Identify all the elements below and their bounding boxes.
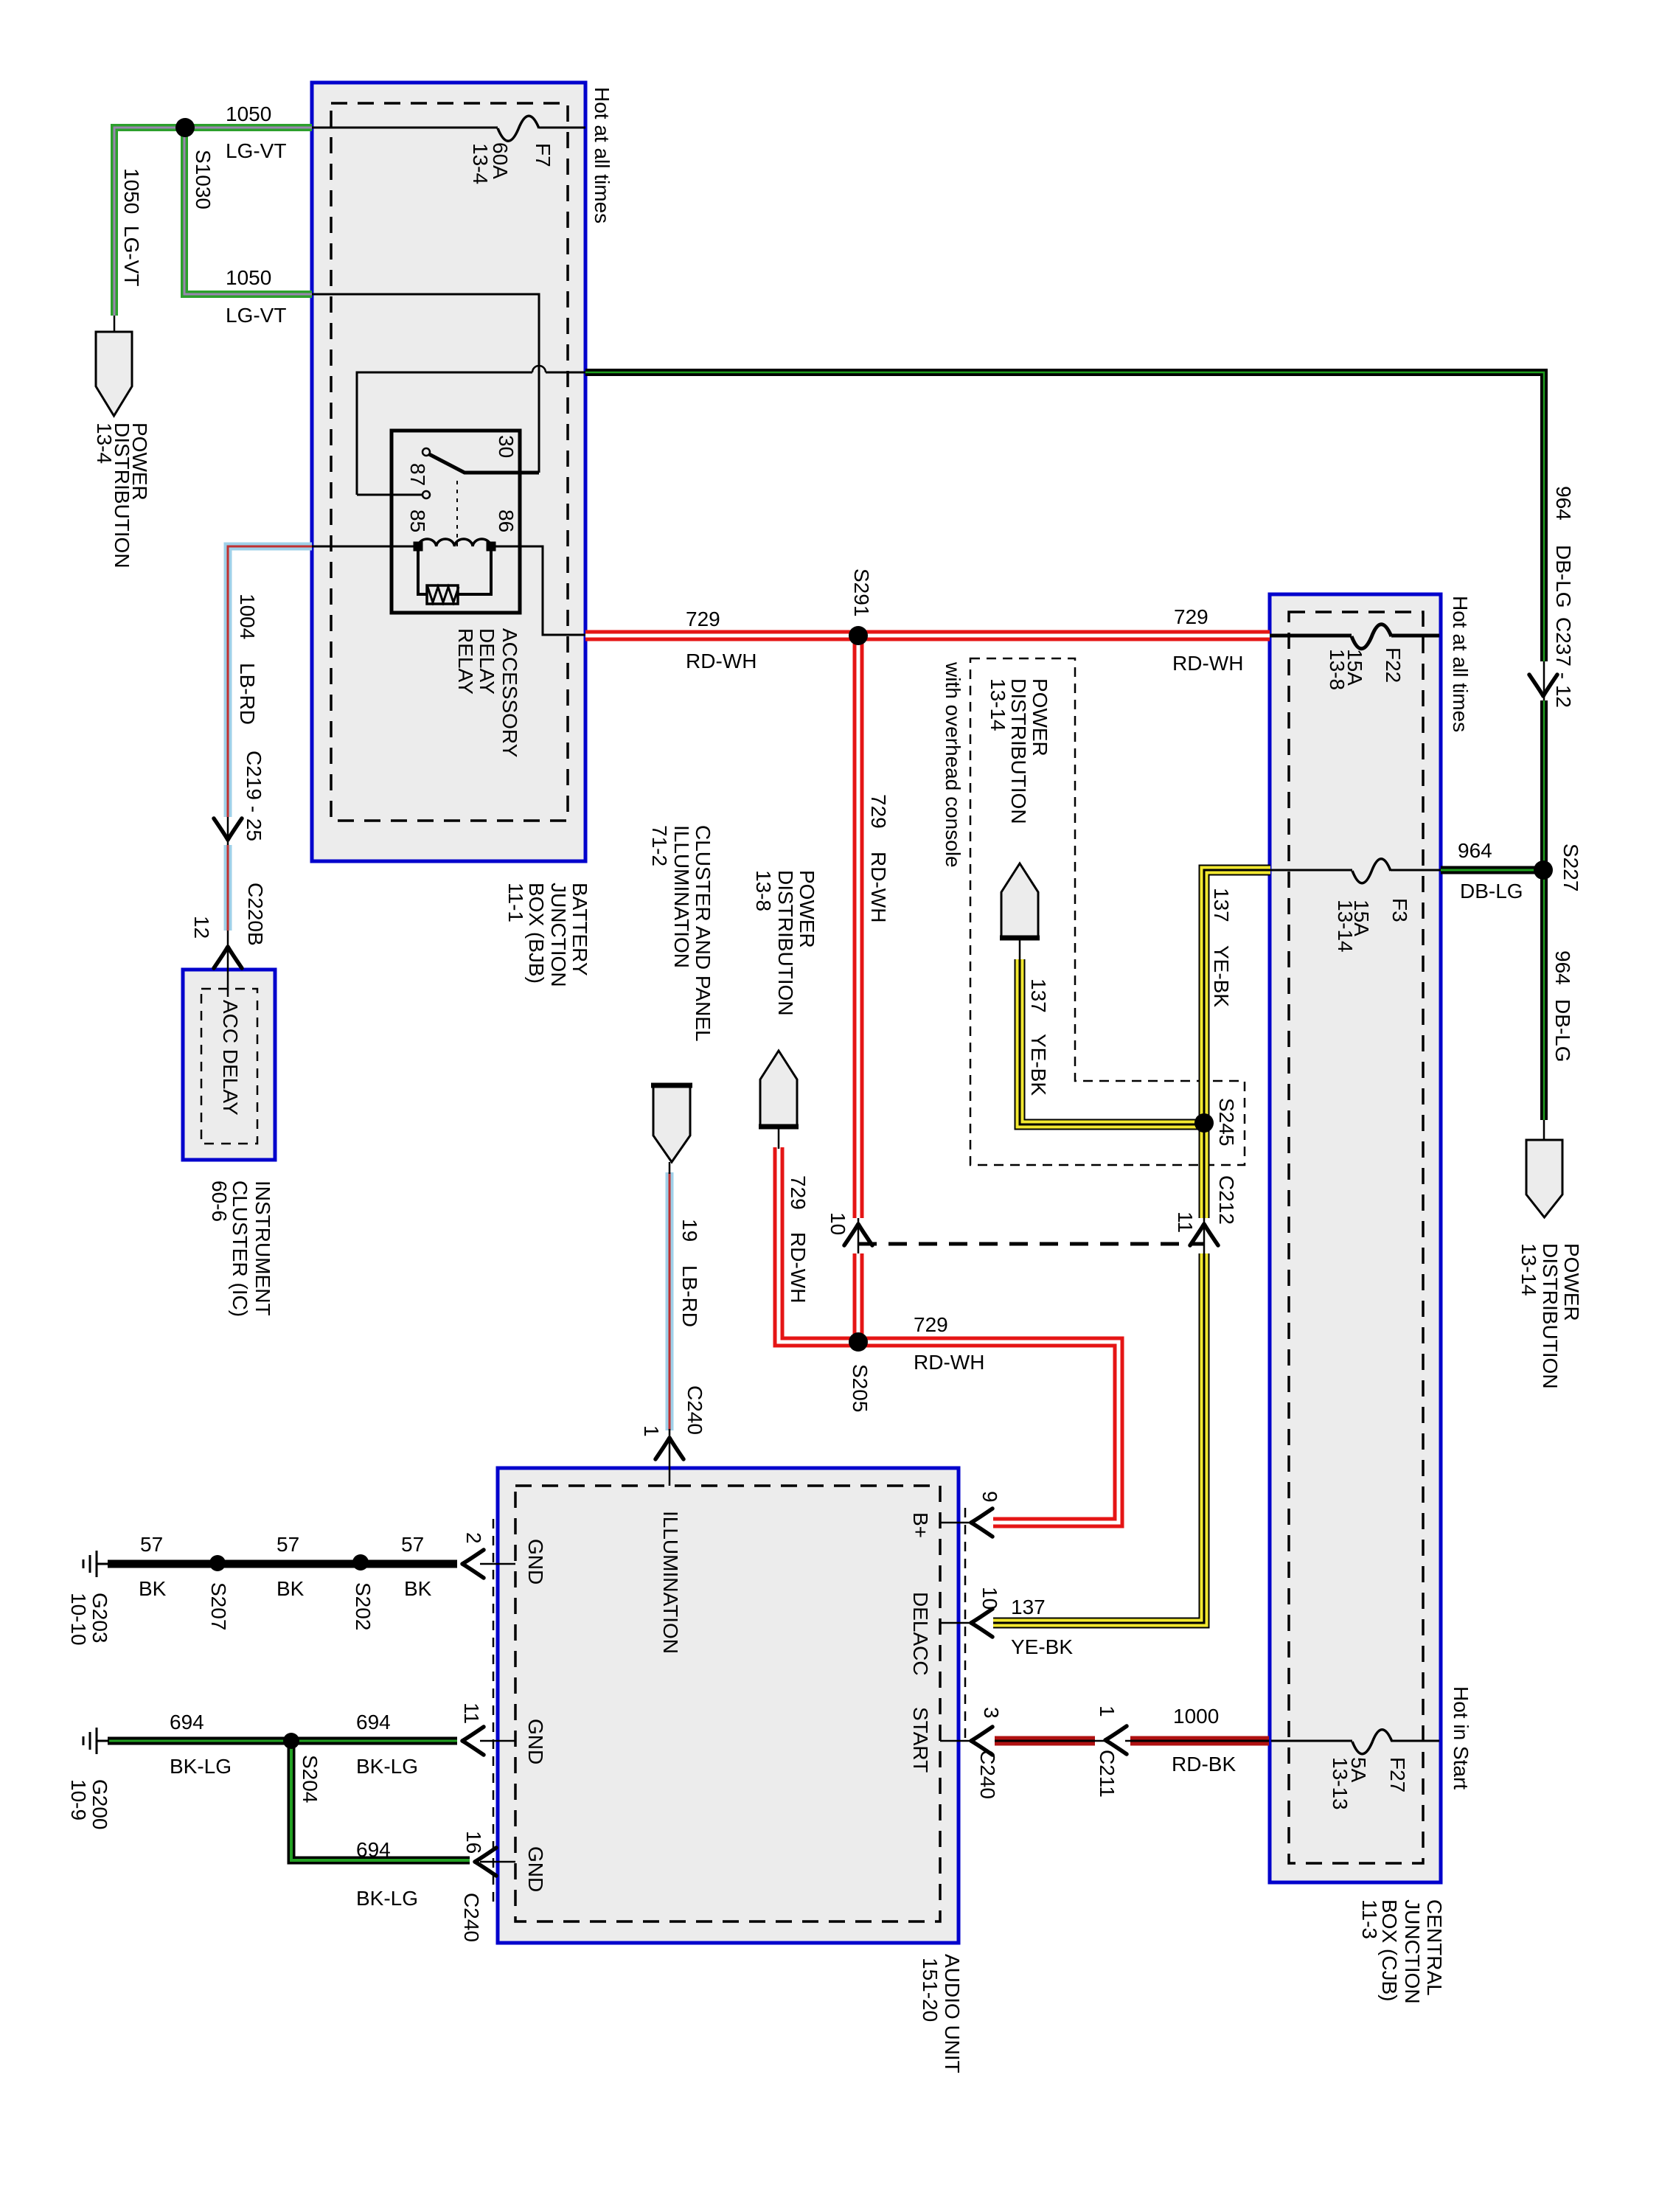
svg-text:13-13: 13-13 bbox=[1329, 1757, 1352, 1810]
svg-text:JUNCTION: JUNCTION bbox=[547, 883, 570, 987]
svg-text:19: 19 bbox=[678, 1219, 701, 1242]
relay coil bbox=[418, 539, 491, 546]
svg-text:1050: 1050 bbox=[226, 102, 271, 125]
svg-text:POWER: POWER bbox=[796, 870, 818, 948]
stub DB-LG C237 connector bbox=[1543, 661, 1545, 700]
svg-text:POWER: POWER bbox=[1560, 1243, 1583, 1321]
stub pennant to wire 19 bbox=[669, 1162, 671, 1174]
splice S205 bbox=[849, 1332, 868, 1352]
svg-text:BOX (BJB): BOX (BJB) bbox=[525, 883, 548, 984]
svg-text:86: 86 bbox=[495, 509, 518, 532]
pennant POWER DISTRIBUTION 13-4 bbox=[96, 332, 132, 416]
ACC DELAY inner dashed boundary bbox=[201, 989, 257, 1144]
svg-text:DISTRIBUTION: DISTRIBUTION bbox=[774, 870, 797, 1016]
svg-text:YE-BK: YE-BK bbox=[1210, 945, 1233, 1007]
svg-text:B+: B+ bbox=[909, 1512, 932, 1538]
svg-text:964: 964 bbox=[1458, 839, 1492, 862]
svg-text:DELACC: DELACC bbox=[909, 1592, 932, 1676]
connector arrow pin 2 bbox=[462, 1550, 484, 1578]
svg-text:ILLUMINATION: ILLUMINATION bbox=[659, 1511, 682, 1654]
pennant CLUSTER AND PANEL ILLUMINATION 71-2 bbox=[653, 1086, 690, 1162]
relay actuating dashed link bbox=[456, 481, 458, 547]
svg-text:137: 137 bbox=[1210, 888, 1233, 922]
svg-text:S207: S207 bbox=[207, 1582, 230, 1630]
stub C212 pin 10 bbox=[858, 1218, 860, 1253]
svg-text:Hot in Start: Hot in Start bbox=[1450, 1686, 1472, 1790]
connector arrow C211 pin 1 bbox=[1105, 1726, 1127, 1754]
dashed option region: with overhead console bbox=[970, 658, 1245, 1165]
svg-text:F22: F22 bbox=[1382, 647, 1405, 683]
svg-text:1: 1 bbox=[640, 1425, 663, 1437]
svg-text:694: 694 bbox=[170, 1711, 204, 1733]
wire 729 RD-WH from BJB to S291 to CJB bbox=[585, 630, 1270, 641]
svg-text:F7: F7 bbox=[532, 143, 554, 167]
splice S227 bbox=[1534, 860, 1553, 880]
svg-text:LG-VT: LG-VT bbox=[226, 304, 286, 327]
splice S202 bbox=[352, 1554, 369, 1571]
splice S1030 bbox=[175, 118, 195, 137]
wire through fuse F7 bbox=[312, 127, 585, 129]
svg-text:GND: GND bbox=[524, 1539, 547, 1585]
wire 57 BK from G203 to audio unit pin 2 bbox=[108, 1560, 457, 1568]
svg-text:S1030: S1030 bbox=[192, 150, 215, 209]
svg-text:729: 729 bbox=[686, 608, 720, 630]
svg-text:C240: C240 bbox=[460, 1893, 483, 1942]
svg-text:G200: G200 bbox=[88, 1779, 111, 1830]
fuse F7 element bbox=[498, 116, 539, 141]
svg-text:729: 729 bbox=[867, 794, 890, 829]
wire 694 BK-LG from S204 to audio unit pin 16 bbox=[291, 1741, 470, 1860]
wire through CJB fuse F27 bbox=[1271, 1740, 1439, 1742]
svg-text:11: 11 bbox=[1174, 1211, 1197, 1233]
svg-text:10: 10 bbox=[827, 1212, 849, 1235]
fuse F3 element bbox=[1352, 859, 1391, 883]
svg-text:POWER: POWER bbox=[1029, 678, 1051, 757]
splice S204 bbox=[283, 1733, 299, 1749]
relay coil terminal 85 bbox=[414, 543, 422, 550]
stub C211 connector gaps bbox=[1095, 1740, 1130, 1742]
svg-text:S202: S202 bbox=[352, 1582, 375, 1630]
wire 137 YE-BK from S245 down to C212 pin 11 bbox=[1199, 1124, 1210, 1218]
wire 137 YE-BK from S245 up to CJB fuse F3 bbox=[1204, 870, 1270, 1124]
connector arrow pin 3 bbox=[971, 1727, 992, 1755]
ACC DELAY box outline bbox=[183, 970, 275, 1160]
svg-text:G203: G203 bbox=[88, 1593, 111, 1644]
svg-text:10-9: 10-9 bbox=[67, 1779, 90, 1820]
CJB inner dashed boundary bbox=[1289, 612, 1423, 1863]
wire from BJB 1050 entry to relay pin 30 bbox=[312, 294, 539, 473]
wire LB-RD entry to relay coil pin 85 bbox=[312, 546, 415, 548]
svg-text:11-3: 11-3 bbox=[1358, 1899, 1381, 1939]
svg-text:30: 30 bbox=[495, 435, 518, 458]
svg-text:DB-LG: DB-LG bbox=[1552, 545, 1575, 608]
battery junction box (BJB) outline bbox=[312, 83, 585, 861]
svg-text:DISTRIBUTION: DISTRIBUTION bbox=[1539, 1243, 1562, 1389]
svg-text:BK-LG: BK-LG bbox=[356, 1887, 418, 1910]
svg-text:ACC DELAY: ACC DELAY bbox=[219, 1000, 242, 1116]
stub pennant 137 to yellow wire bbox=[1019, 939, 1021, 961]
svg-text:Hot at all times: Hot at all times bbox=[1449, 596, 1472, 732]
svg-text:YE-BK: YE-BK bbox=[1027, 1034, 1050, 1096]
svg-text:1004: 1004 bbox=[236, 594, 259, 639]
relay coil terminal 86 bbox=[487, 543, 495, 550]
svg-text:729: 729 bbox=[1174, 605, 1208, 628]
svg-text:ILLUMINATION: ILLUMINATION bbox=[670, 825, 693, 968]
svg-text:ACCESSORY: ACCESSORY bbox=[498, 628, 521, 758]
svg-text:C212: C212 bbox=[1215, 1175, 1238, 1225]
svg-text:C219 - 25: C219 - 25 bbox=[243, 751, 265, 841]
svg-text:13-14: 13-14 bbox=[1334, 900, 1357, 953]
svg-text:C211: C211 bbox=[1096, 1750, 1119, 1798]
svg-text:87: 87 bbox=[406, 463, 429, 486]
pennant POWER DISTRIBUTION 13-14 right bbox=[1526, 1140, 1562, 1217]
svg-text:AUDIO UNIT: AUDIO UNIT bbox=[941, 1954, 964, 2073]
stub audio pin 3 bbox=[940, 1740, 970, 1742]
svg-text:13-14: 13-14 bbox=[987, 678, 1009, 731]
splice S245 bbox=[1194, 1113, 1214, 1133]
ground G203 bbox=[83, 1551, 109, 1577]
wire relay pin 86 to RD-WH output bbox=[491, 546, 585, 635]
audio unit box outline bbox=[498, 1468, 959, 1943]
wire 729 RD-WH from C212 pin 10 to S205 bbox=[853, 1253, 864, 1342]
stub audio pin 9 bbox=[940, 1522, 970, 1524]
svg-text:1050: 1050 bbox=[226, 266, 271, 289]
wire 729 RD-WH from S205 to audio unit pin 9 bbox=[858, 1342, 1119, 1523]
connector C240 dashed line (audio unit left side) bbox=[493, 1519, 495, 1902]
svg-text:964: 964 bbox=[1551, 950, 1574, 985]
splice S291 bbox=[849, 626, 868, 645]
svg-text:694: 694 bbox=[356, 1838, 391, 1861]
svg-text:BK-LG: BK-LG bbox=[356, 1755, 418, 1778]
stub audio pin 11 bbox=[480, 1740, 515, 1742]
pennant POWER DISTRIBUTION 13-8 bbox=[760, 1051, 797, 1127]
stub audio pin 2 bbox=[480, 1563, 515, 1565]
svg-text:S227: S227 bbox=[1559, 844, 1582, 891]
wire 1000 RD-BK from audio unit pin 3 to C211 bbox=[995, 1736, 1095, 1746]
wire 1000 RD-BK from C211 to CJB fuse F27 bbox=[1130, 1736, 1269, 1746]
svg-text:57: 57 bbox=[276, 1533, 299, 1556]
wire 1004 LB-RD from C219 to C220B bbox=[224, 845, 232, 931]
svg-text:S205: S205 bbox=[849, 1364, 872, 1412]
connector arrow pin 11 bbox=[462, 1727, 484, 1755]
svg-text:729: 729 bbox=[914, 1313, 948, 1336]
stub DB-LG wire to pennant 13-14 bbox=[1543, 1120, 1545, 1140]
svg-text:RELAY: RELAY bbox=[454, 628, 477, 695]
svg-text:with overhead console: with overhead console bbox=[942, 661, 964, 868]
svg-text:10: 10 bbox=[978, 1587, 1001, 1610]
svg-text:RD-BK: RD-BK bbox=[1172, 1753, 1236, 1775]
svg-text:1: 1 bbox=[1096, 1705, 1119, 1717]
svg-text:11: 11 bbox=[460, 1703, 483, 1724]
stub C212 pin 11 bbox=[1203, 1218, 1206, 1253]
relay switch arm bbox=[429, 454, 539, 473]
svg-text:2: 2 bbox=[462, 1532, 485, 1544]
svg-text:C237 - 12: C237 - 12 bbox=[1552, 617, 1575, 708]
fuse F27 element bbox=[1352, 1730, 1392, 1754]
svg-text:694: 694 bbox=[356, 1711, 391, 1733]
svg-text:60-6: 60-6 bbox=[208, 1180, 231, 1222]
wire 1004 LB-RD from relay coil to C219 bbox=[228, 546, 312, 817]
relay suppression resistor leads bbox=[418, 550, 491, 594]
connector arrow audio pin 1 bbox=[655, 1438, 684, 1459]
fuse F22 element bbox=[1352, 625, 1391, 649]
stub audio pin 16 bbox=[480, 1861, 515, 1863]
wire 964 DB-LG from BJB relay output to C237 bbox=[585, 372, 1544, 661]
svg-text:C220B: C220B bbox=[244, 883, 267, 946]
svg-text:13-8: 13-8 bbox=[1326, 649, 1349, 690]
wire 19 LB-RD from pennant to audio unit pin 1 bbox=[666, 1172, 674, 1430]
svg-text:11-1: 11-1 bbox=[504, 883, 527, 922]
connector arrow C219 pin 25 bbox=[214, 818, 242, 840]
svg-text:LG-VT: LG-VT bbox=[226, 139, 286, 162]
wire through CJB fuse F22 bbox=[1270, 634, 1439, 638]
central junction box (CJB) outline bbox=[1270, 594, 1441, 1882]
connector arrow C212 pin 10 bbox=[844, 1224, 872, 1245]
svg-text:S245: S245 bbox=[1215, 1098, 1238, 1146]
wire 1050 LG-VT second branch from S1030 into BJB bbox=[184, 124, 312, 294]
svg-text:S204: S204 bbox=[299, 1755, 321, 1803]
connector arrow C220B pin 12 bbox=[214, 947, 242, 968]
connector arrow C237 pin 12 bbox=[1529, 675, 1557, 696]
svg-text:F3: F3 bbox=[1388, 898, 1411, 922]
svg-text:RD-WH: RD-WH bbox=[1172, 652, 1243, 675]
svg-text:CLUSTER AND PANEL: CLUSTER AND PANEL bbox=[692, 825, 714, 1042]
wire 137 YE-BK from overhead console pennant to S245 bbox=[1020, 959, 1204, 1124]
svg-text:CENTRAL: CENTRAL bbox=[1423, 1899, 1446, 1996]
svg-text:10-10: 10-10 bbox=[67, 1593, 90, 1646]
svg-text:16: 16 bbox=[462, 1831, 485, 1854]
wire 964 DB-LG from CJB fuse F3 to S227 bbox=[1441, 866, 1543, 874]
wire 729 RD-WH from power distribution pennant to S205 bbox=[779, 1147, 858, 1342]
svg-text:85: 85 bbox=[406, 509, 429, 532]
connector C240 dashed line (audio unit right side) bbox=[964, 1508, 967, 1744]
connector C212 heavy dashed line bbox=[858, 1242, 1204, 1246]
wire 729 RD-WH vertical from S291 to C212 pin 10 bbox=[853, 636, 864, 1218]
svg-text:BK: BK bbox=[404, 1577, 432, 1600]
stub pennant 729 to red wire bbox=[778, 1127, 780, 1149]
svg-text:1000: 1000 bbox=[1173, 1705, 1219, 1728]
svg-text:57: 57 bbox=[140, 1533, 163, 1556]
relay contact 87 bbox=[422, 491, 430, 498]
svg-text:RD-WH: RD-WH bbox=[914, 1351, 984, 1374]
relay switch common contact bbox=[422, 448, 430, 456]
svg-text:C240: C240 bbox=[976, 1750, 999, 1799]
svg-text:3: 3 bbox=[980, 1707, 1003, 1719]
svg-text:137: 137 bbox=[1011, 1596, 1046, 1618]
svg-text:JUNCTION: JUNCTION bbox=[1401, 1899, 1424, 2004]
svg-text:LG-VT: LG-VT bbox=[120, 226, 143, 286]
svg-text:F27: F27 bbox=[1386, 1757, 1409, 1792]
relay resistor zigzag bbox=[428, 587, 459, 602]
svg-text:GND: GND bbox=[524, 1846, 547, 1892]
svg-text:151-20: 151-20 bbox=[919, 1958, 942, 2022]
wire 964 DB-LG from C237 to S227 and pennant bbox=[1540, 700, 1548, 1120]
stub audio pin 10 bbox=[940, 1622, 970, 1624]
svg-text:RD-WH: RD-WH bbox=[787, 1232, 810, 1303]
stub LB-RD C219 connector bbox=[227, 817, 229, 845]
relay suppression resistor body bbox=[427, 585, 458, 604]
svg-text:DB-LG: DB-LG bbox=[1551, 999, 1574, 1062]
svg-text:DELAY: DELAY bbox=[476, 628, 498, 695]
svg-text:729: 729 bbox=[787, 1175, 810, 1210]
svg-text:71-2: 71-2 bbox=[648, 825, 671, 866]
svg-text:964: 964 bbox=[1552, 486, 1575, 521]
svg-text:YE-BK: YE-BK bbox=[1011, 1635, 1073, 1658]
svg-text:GND: GND bbox=[524, 1719, 547, 1764]
wire 137 YE-BK from C212 pin 11 to audio unit pin 10 bbox=[993, 1253, 1204, 1623]
svg-text:LB-RD: LB-RD bbox=[236, 663, 259, 725]
svg-text:INSTRUMENT: INSTRUMENT bbox=[251, 1180, 274, 1316]
svg-text:RD-WH: RD-WH bbox=[867, 852, 890, 922]
pennant POWER DISTRIBUTION 13-14 overhead console bbox=[1001, 863, 1038, 938]
wire 1050 LG-VT from S1030 to power distribution and BJB bbox=[114, 128, 312, 316]
svg-text:DB-LG: DB-LG bbox=[1460, 880, 1523, 902]
svg-text:57: 57 bbox=[401, 1533, 424, 1556]
connector arrow pin 9 bbox=[971, 1509, 992, 1537]
svg-text:BK: BK bbox=[139, 1577, 167, 1600]
svg-text:13-4: 13-4 bbox=[93, 422, 116, 464]
BJB inner dashed boundary bbox=[331, 103, 568, 821]
svg-text:1050: 1050 bbox=[120, 168, 143, 214]
svg-text:9: 9 bbox=[978, 1491, 1001, 1503]
wire through CJB fuse F3 bbox=[1270, 869, 1441, 872]
svg-text:START: START bbox=[909, 1707, 932, 1773]
svg-text:Hot at all times: Hot at all times bbox=[591, 87, 613, 223]
connector arrow pin 16 bbox=[475, 1848, 496, 1876]
stub C220B to ACC DELAY box bbox=[227, 931, 229, 997]
wire 694 BK-LG from G200 to audio unit pin 11 bbox=[108, 1737, 457, 1745]
connector arrow C212 pin 11 bbox=[1190, 1224, 1218, 1245]
svg-text:137: 137 bbox=[1027, 978, 1050, 1013]
svg-text:BK: BK bbox=[276, 1577, 305, 1600]
svg-text:CLUSTER (IC): CLUSTER (IC) bbox=[229, 1180, 251, 1317]
svg-text:13-8: 13-8 bbox=[752, 870, 775, 911]
stub wire 19 to audio unit pin 1 bbox=[669, 1429, 671, 1486]
audio unit inner dashed boundary bbox=[515, 1486, 940, 1921]
connector arrow pin 10 bbox=[971, 1609, 992, 1637]
svg-text:BATTERY: BATTERY bbox=[568, 883, 591, 976]
svg-text:RD-WH: RD-WH bbox=[686, 650, 757, 672]
svg-text:LB-RD: LB-RD bbox=[678, 1265, 701, 1327]
svg-text:S291: S291 bbox=[850, 568, 873, 616]
svg-text:BK-LG: BK-LG bbox=[170, 1755, 232, 1778]
svg-text:DISTRIBUTION: DISTRIBUTION bbox=[1007, 678, 1030, 824]
relay box outline bbox=[392, 431, 520, 613]
svg-text:C240: C240 bbox=[684, 1385, 706, 1435]
svg-text:13-14: 13-14 bbox=[1517, 1243, 1540, 1296]
splice S207 bbox=[209, 1555, 226, 1571]
stub green wire to power distribution pennant 13-4 bbox=[114, 316, 116, 332]
ground G200 bbox=[83, 1728, 109, 1754]
wire pin 87 to left riser bbox=[357, 494, 422, 496]
svg-text:12: 12 bbox=[190, 916, 213, 939]
svg-text:13-4: 13-4 bbox=[469, 143, 492, 184]
wire from relay pin 87 to DB-LG output with hopover bbox=[357, 372, 532, 495]
